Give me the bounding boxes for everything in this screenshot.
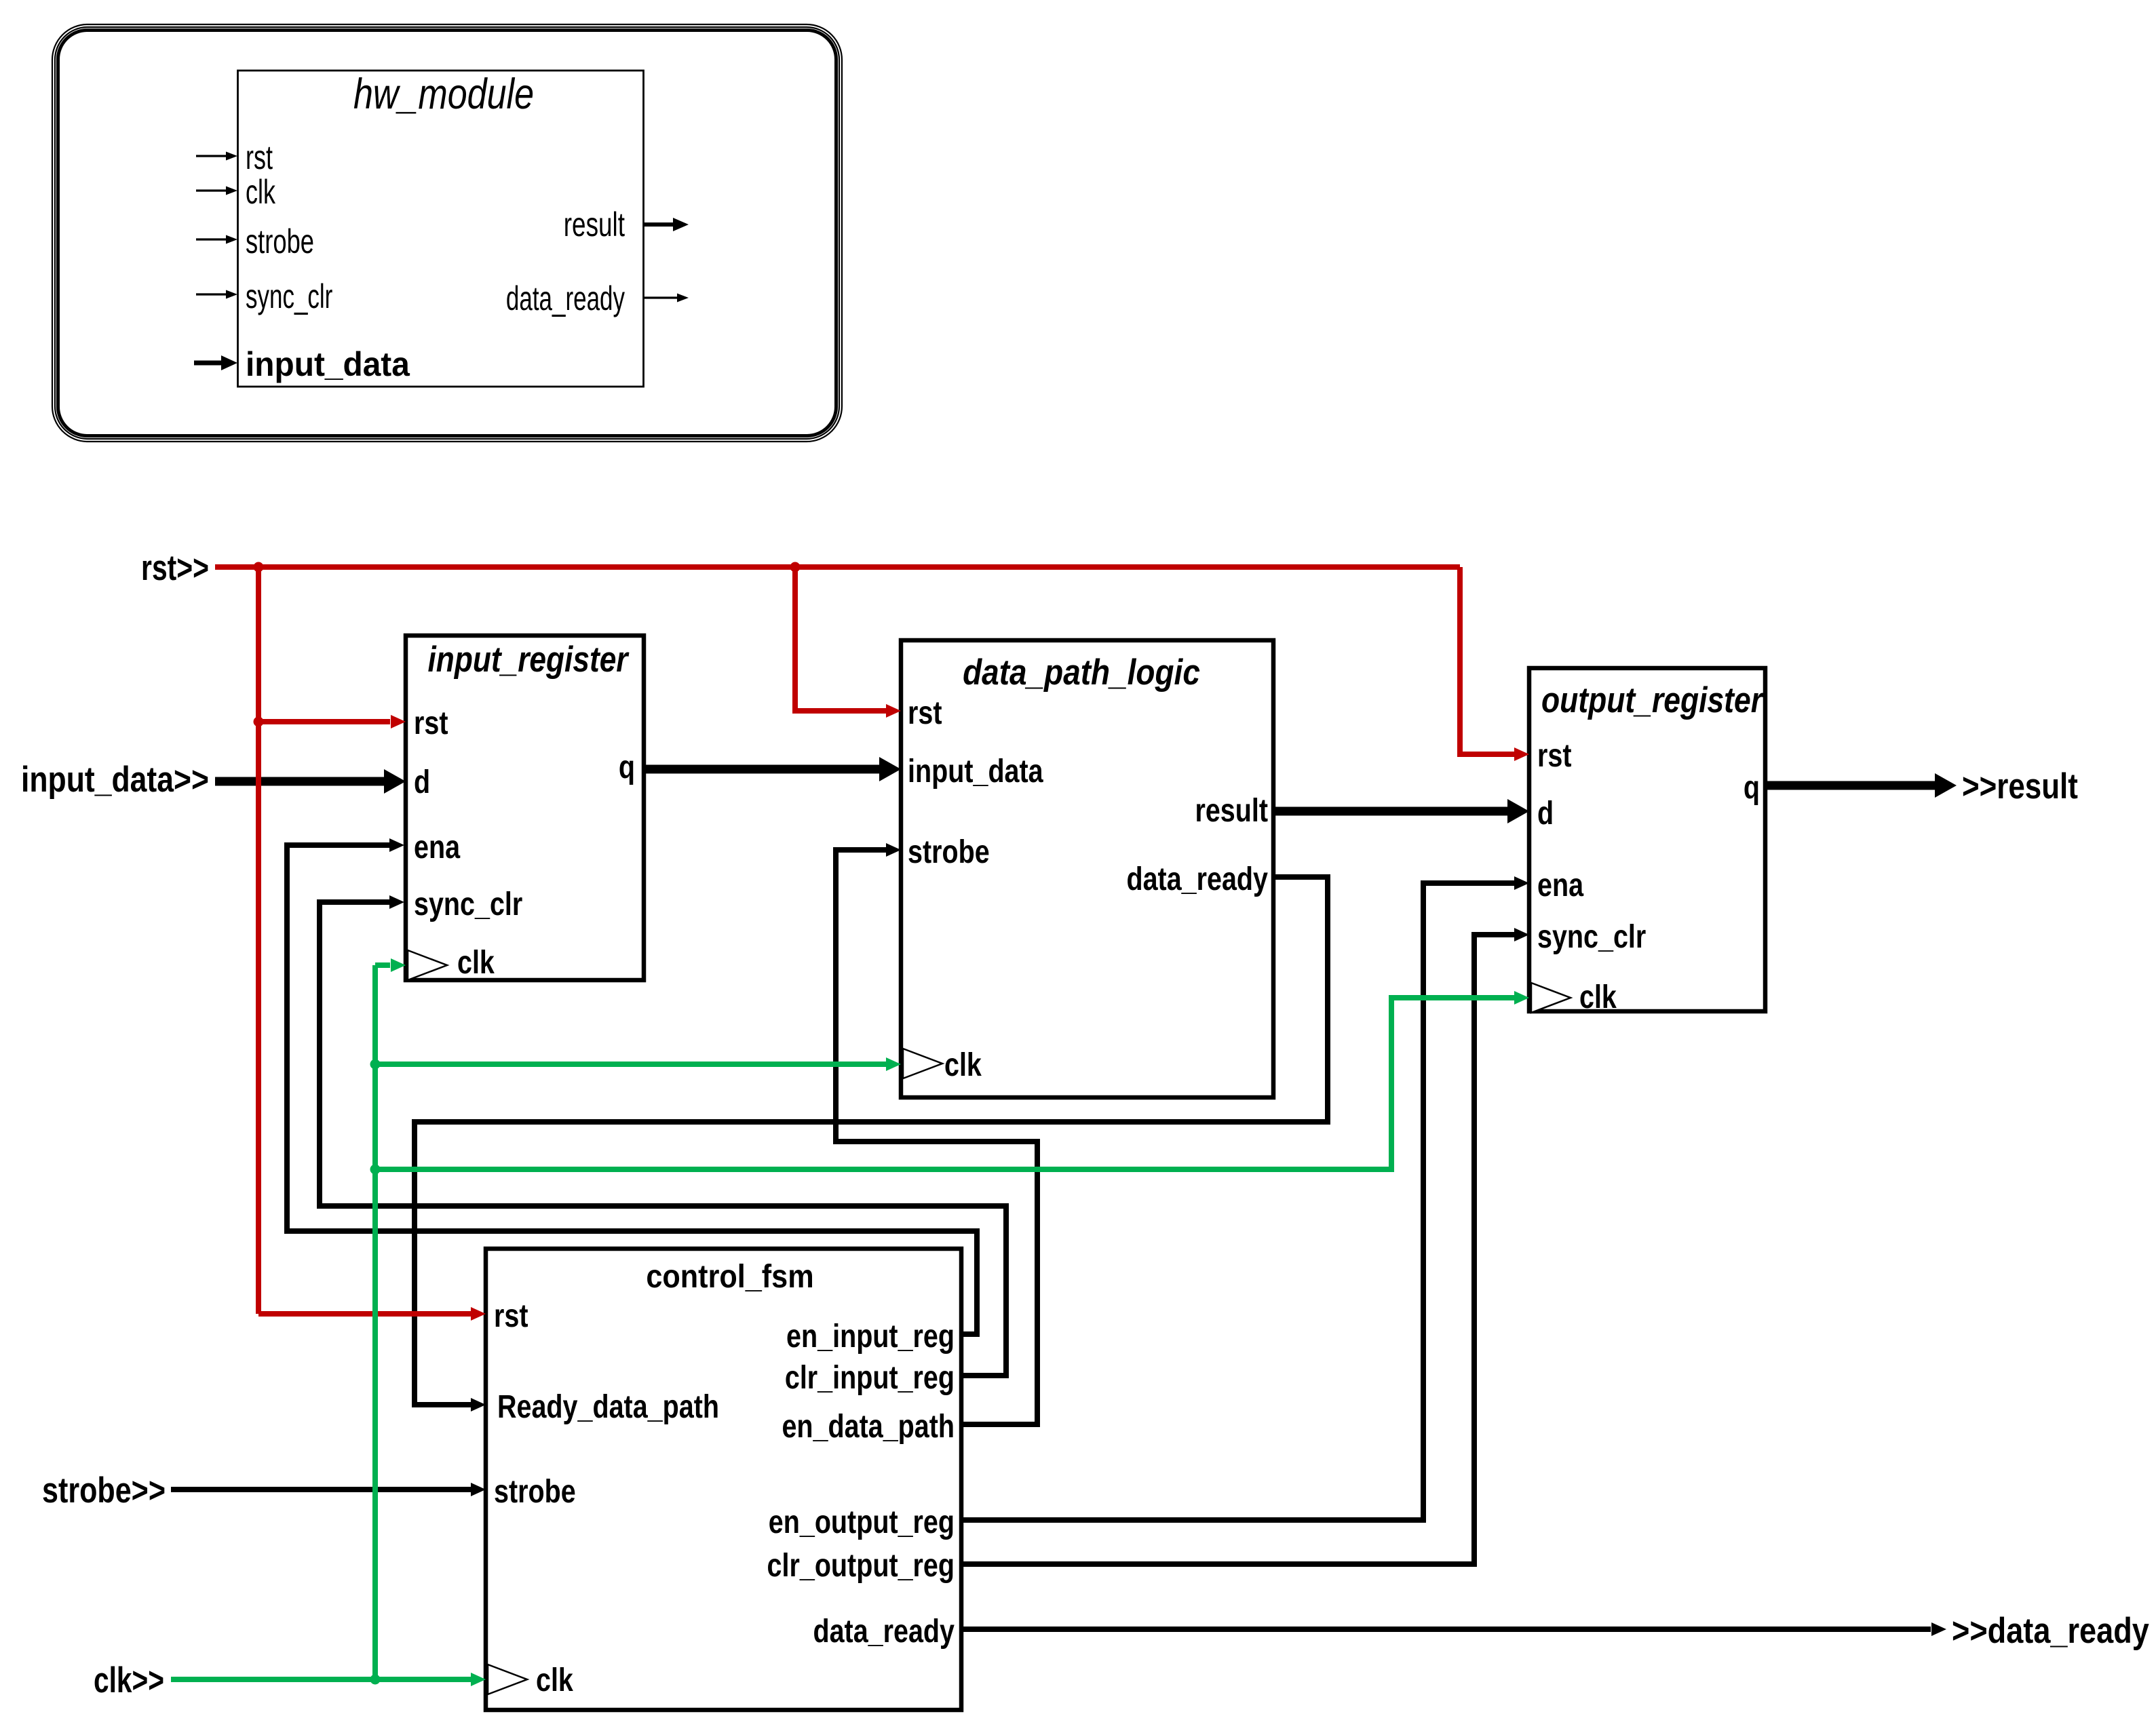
- wire clr_input_reg: control_fsm to input_register sync_clr: [320, 902, 1006, 1376]
- clock triangle of control_fsm: [488, 1664, 527, 1694]
- svg-text:clr_output_reg: clr_output_reg: [767, 1547, 955, 1584]
- svg-text:q: q: [619, 749, 635, 785]
- wire clk vertical trunk (green): [372, 965, 378, 1679]
- junction rst node A: [254, 562, 264, 572]
- bus result of data_path_logic to output_register d: [1273, 807, 1509, 816]
- svg-text:result: result: [564, 206, 625, 244]
- hw_module symbol frame (triple rounded border): [52, 24, 842, 442]
- svg-text:clk: clk: [536, 1662, 573, 1698]
- svg-text:strobe: strobe: [246, 222, 314, 260]
- wire clk to output_register (green): [375, 998, 1515, 1169]
- svg-text:d: d: [414, 764, 430, 800]
- svg-text:en_data_path: en_data_path: [782, 1408, 955, 1445]
- wire data_ready output of control_fsm: [961, 1627, 1931, 1632]
- wire en_output_reg: control_fsm to output_register ena: [961, 883, 1516, 1520]
- hw_module pin data_ready output arrow: [644, 294, 689, 303]
- junction rst node B: [790, 562, 801, 572]
- svg-text:data_ready: data_ready: [813, 1613, 955, 1650]
- svg-text:q: q: [1744, 769, 1760, 806]
- svg-text:Ready_data_path: Ready_data_path: [497, 1388, 719, 1425]
- svg-text:result: result: [1195, 792, 1268, 829]
- svg-text:d: d: [1537, 795, 1554, 832]
- svg-text:ena: ena: [414, 829, 461, 865]
- clock triangle of output_register: [1531, 983, 1571, 1013]
- svg-text:clk>>: clk>>: [94, 1660, 164, 1700]
- block data_path_logic: [901, 640, 1273, 1097]
- svg-text:rst: rst: [908, 695, 942, 731]
- svg-text:rst: rst: [414, 705, 448, 741]
- wire clk into input_register (green): [375, 962, 390, 968]
- block output_register: [1529, 668, 1765, 1011]
- hw_module pin sync_clr input arrow: [196, 290, 237, 299]
- svg-text:input_data>>: input_data>>: [21, 760, 209, 799]
- svg-text:clk: clk: [944, 1047, 982, 1083]
- bus q of input_register to data_path_logic input_data: [644, 765, 881, 774]
- svg-text:clk: clk: [1579, 979, 1617, 1015]
- wire clk net (green) horizontal from clk input: [171, 1677, 471, 1682]
- svg-text:hw_module: hw_module: [353, 71, 534, 118]
- wire en_data_path: control_fsm to data_path_logic strobe: [836, 850, 1037, 1424]
- hw_module pin input_data input arrow (bus): [194, 355, 237, 370]
- wire strobe input to control_fsm: [171, 1487, 471, 1492]
- bus input_data to input_register d: [215, 777, 385, 786]
- svg-text:rst: rst: [246, 139, 273, 176]
- svg-text:output_register: output_register: [1541, 680, 1765, 720]
- svg-text:input_register: input_register: [427, 640, 630, 680]
- junction clk node B: [370, 1165, 381, 1175]
- junction clk node A: [370, 1059, 381, 1070]
- svg-text:strobe: strobe: [494, 1473, 576, 1510]
- svg-text:sync_clr: sync_clr: [414, 886, 522, 922]
- hw_module block U0: [238, 71, 644, 387]
- clock triangle of input_register: [408, 950, 447, 980]
- hw_module pin clk input arrow: [196, 187, 237, 195]
- wire rst drop to data_path_logic (red): [795, 567, 887, 711]
- wire en_input_reg: control_fsm to input_register ena: [287, 845, 977, 1334]
- svg-text:sync_clr: sync_clr: [246, 278, 332, 316]
- svg-text:en_output_reg: en_output_reg: [769, 1504, 955, 1540]
- svg-text:ena: ena: [1537, 867, 1584, 903]
- wire rst into input_register (red): [258, 719, 390, 724]
- svg-text:rst: rst: [1537, 737, 1572, 774]
- svg-text:clk: clk: [246, 174, 275, 211]
- wire rst into control_fsm (red): [258, 1311, 471, 1317]
- svg-text:rst>>: rst>>: [141, 548, 209, 588]
- junction rst node C: [254, 717, 264, 727]
- wire rst net (red) horizontal trunk: [215, 564, 1460, 570]
- svg-text:clk: clk: [457, 944, 495, 981]
- svg-text:rst: rst: [494, 1298, 528, 1334]
- wire clk into data_path_logic (green): [375, 1062, 887, 1067]
- clock triangle of data_path_logic: [903, 1049, 942, 1078]
- svg-text:en_input_reg: en_input_reg: [786, 1318, 955, 1355]
- svg-text:data_ready: data_ready: [506, 280, 625, 318]
- hw_module pin rst input arrow: [196, 152, 237, 161]
- wire data_ready of data_path_logic to control_fsm Ready_data_path: [415, 877, 1328, 1405]
- svg-text:strobe>>: strobe>>: [42, 1471, 166, 1511]
- svg-text:data_ready: data_ready: [1126, 861, 1268, 897]
- hw_module pin strobe input arrow: [196, 235, 237, 244]
- svg-text:input_data: input_data: [246, 346, 410, 383]
- wire rst vertical branch left (red): [256, 567, 261, 1314]
- block control_fsm: [486, 1249, 961, 1710]
- wire clr_output_reg: control_fsm to output_register sync_clr: [961, 935, 1516, 1564]
- svg-text:strobe: strobe: [908, 834, 990, 870]
- junction clk node C: [370, 1675, 381, 1685]
- svg-text:clr_input_reg: clr_input_reg: [785, 1359, 955, 1396]
- wire rst drop to output_register (red): [1460, 567, 1516, 754]
- svg-text:control_fsm: control_fsm: [646, 1258, 813, 1295]
- svg-text:data_path_logic: data_path_logic: [963, 652, 1200, 693]
- hw_module pin result output arrow (bus): [644, 218, 689, 231]
- block input_register: [406, 636, 644, 980]
- bus q of output_register to result output: [1765, 781, 1935, 790]
- svg-text:sync_clr: sync_clr: [1537, 918, 1646, 955]
- svg-text:>>result: >>result: [1962, 766, 2078, 806]
- svg-text:input_data: input_data: [908, 753, 1043, 790]
- svg-text:>>data_ready: >>data_ready: [1952, 1611, 2149, 1651]
